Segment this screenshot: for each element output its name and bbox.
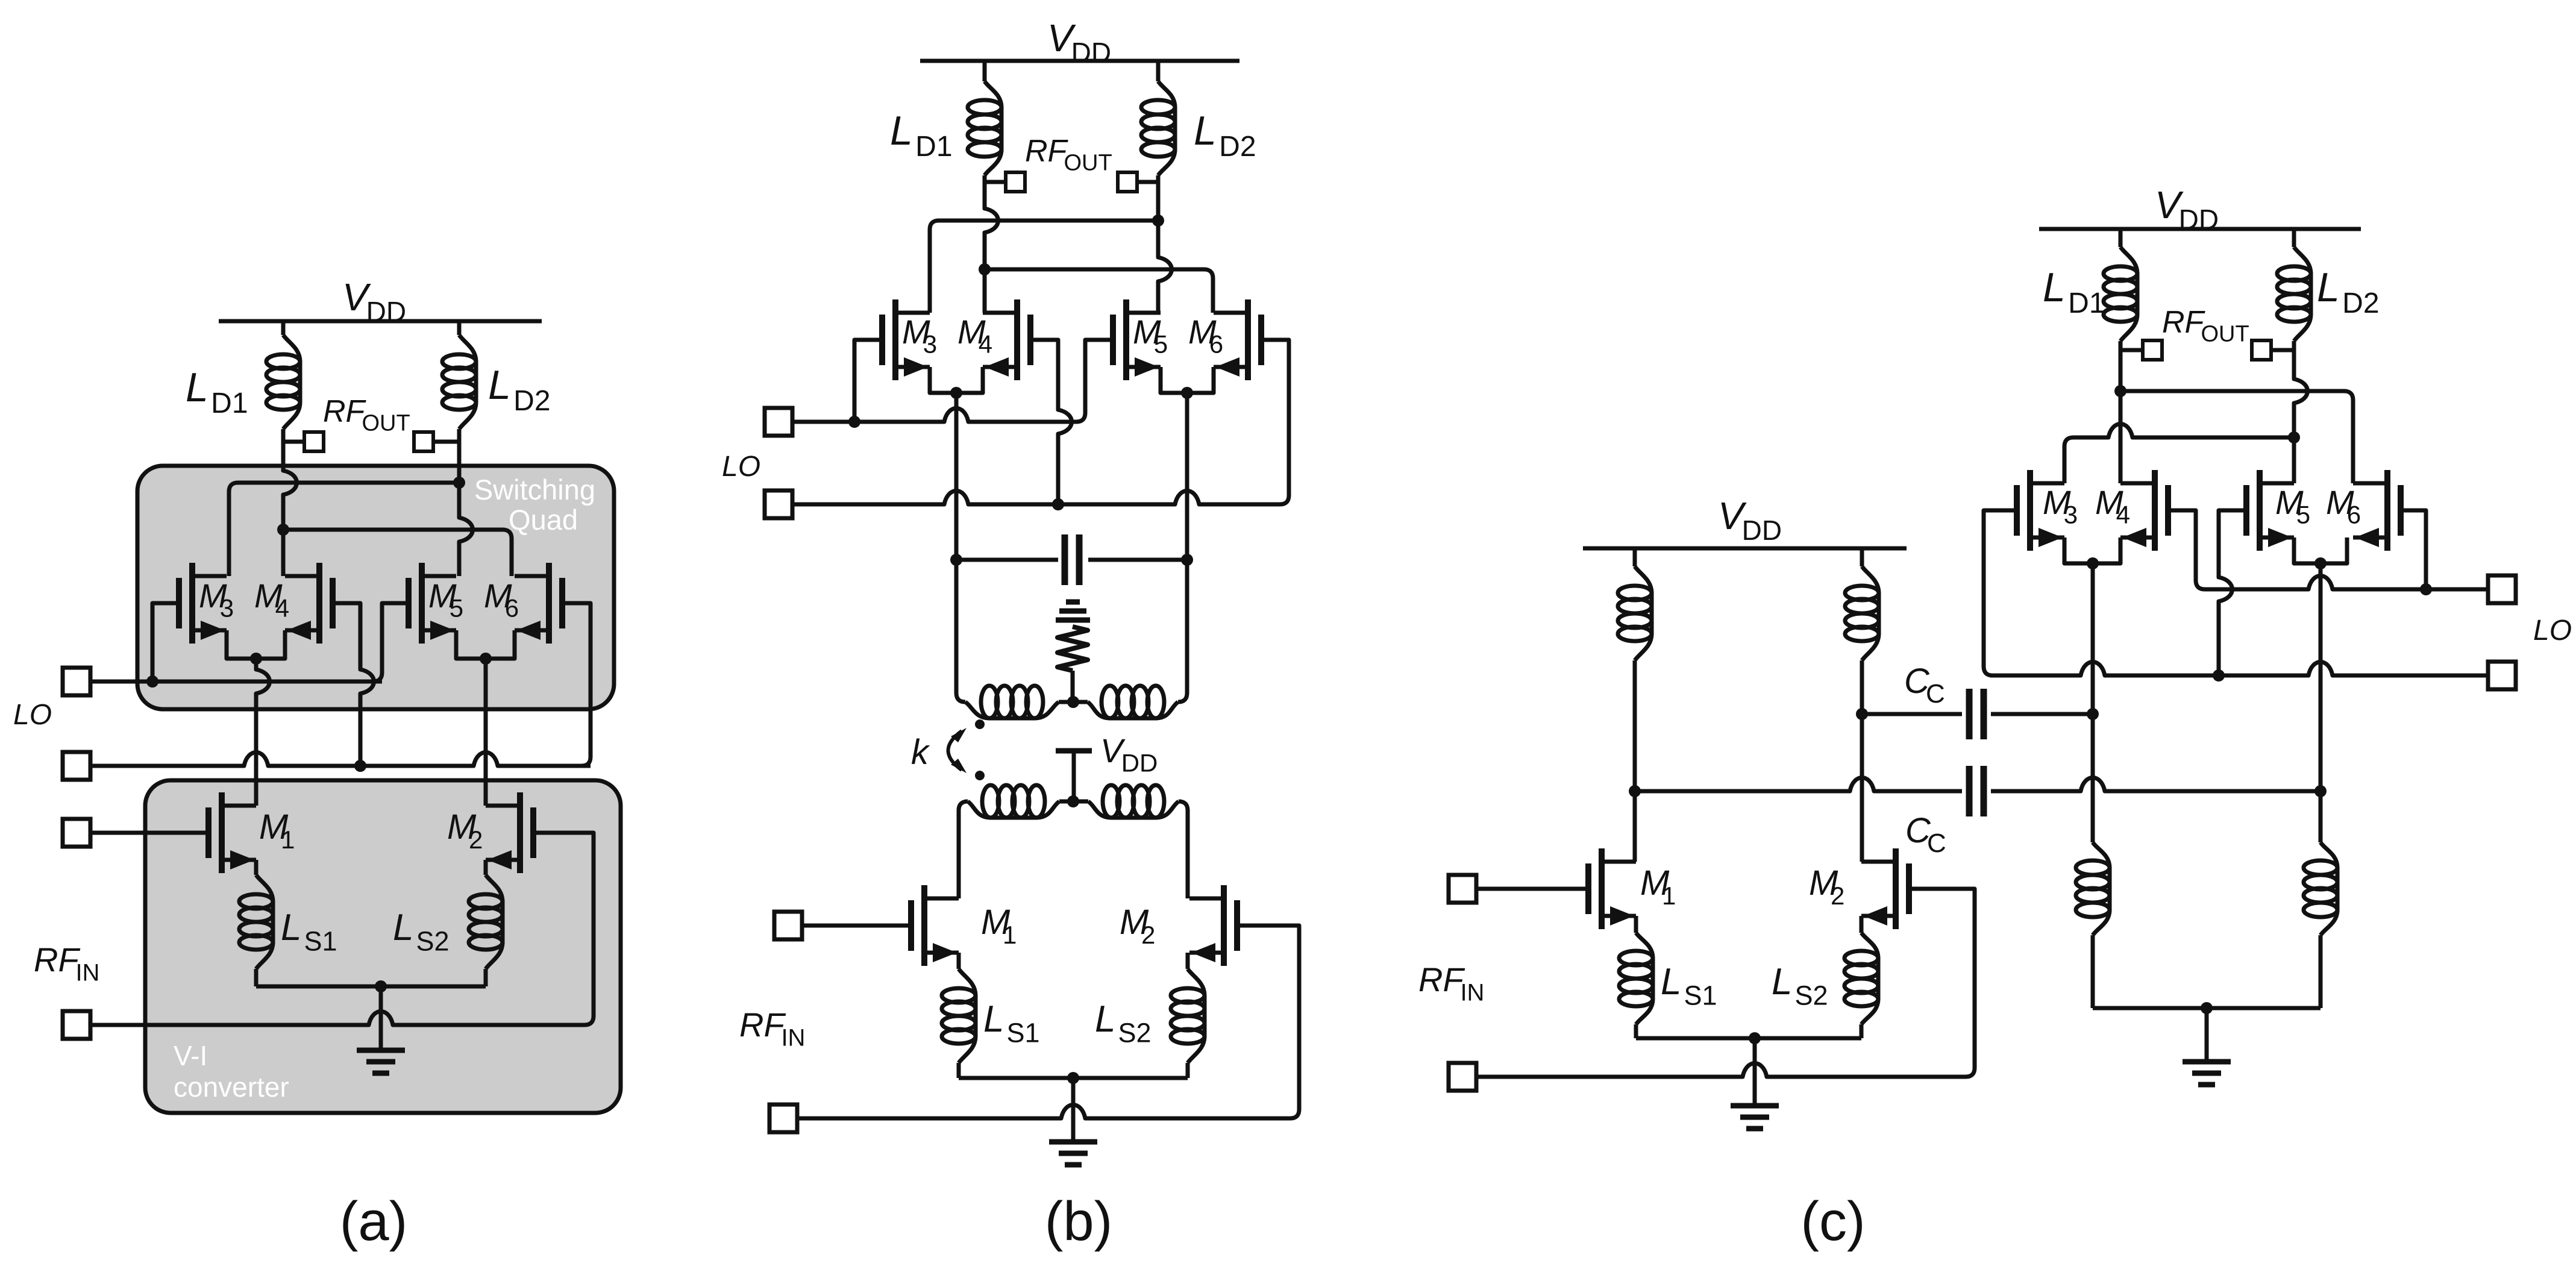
transistor M6 (b) bbox=[1258, 315, 1264, 365]
node M6 gate junction (c) bbox=[2420, 583, 2432, 595]
svg-text:IN: IN bbox=[1460, 980, 1484, 1006]
wire VDD tee stem (b) bbox=[1072, 751, 1076, 801]
svg-text:5: 5 bbox=[450, 594, 463, 622]
transistor M1 (a) bbox=[205, 807, 212, 858]
node source center (b) bbox=[1067, 1072, 1079, 1084]
svg-text:L: L bbox=[1095, 998, 1115, 1040]
inductor drain left (c) bbox=[1635, 566, 1652, 660]
wire RF_IN- line (c) bbox=[1476, 1064, 1975, 1077]
transistor M1 (b) bbox=[908, 900, 914, 951]
svg-text:OUT: OUT bbox=[1064, 151, 1112, 176]
wire M1 source to L_S1 bbox=[254, 860, 259, 875]
transistor M5 (a) bbox=[406, 578, 412, 628]
svg-text:D2: D2 bbox=[1219, 131, 1256, 163]
svg-text:DD: DD bbox=[366, 296, 406, 327]
node common source right (c) bbox=[2314, 557, 2327, 569]
port RF_IN+ (b) bbox=[774, 912, 802, 939]
wire source bottom rail (a) bbox=[256, 985, 486, 989]
wire L_D2 column (b) bbox=[1158, 175, 1172, 313]
svg-text:4: 4 bbox=[2116, 501, 2130, 529]
node L_D1/M4 drain (b) bbox=[979, 263, 991, 275]
wire M3-M4 common source (c) bbox=[2064, 537, 2120, 563]
node M4 gate junction bbox=[354, 760, 366, 772]
coupling arrow bbox=[948, 731, 962, 770]
wire C_C upper line (c) bbox=[1862, 712, 2093, 716]
V-I converter box bbox=[145, 780, 621, 1113]
wire M3 gate (c) bbox=[1984, 510, 2017, 675]
wire C_C lower line (c) bbox=[1635, 778, 2321, 792]
transistor M2 (a) bbox=[530, 807, 536, 858]
wire M1 source to L_S1 (c) bbox=[1634, 916, 1638, 933]
node M4 gate junction (b) bbox=[1052, 498, 1064, 510]
RF_OUT tap square left (a) bbox=[304, 432, 324, 451]
RF_OUT tap stub left (b) bbox=[985, 180, 1006, 184]
wire resistor to tap (b) bbox=[1071, 671, 1075, 702]
svg-text:C: C bbox=[1927, 829, 1946, 858]
wire L_D2 top (c) bbox=[2292, 229, 2296, 247]
port RF_IN- (c) bbox=[1449, 1063, 1476, 1091]
wire right source column (b) bbox=[1185, 393, 1189, 560]
port LO- (c) bbox=[2488, 662, 2516, 689]
svg-text:D2: D2 bbox=[513, 385, 550, 417]
wire M1 gate bbox=[90, 831, 208, 835]
transistor M3 (b) bbox=[879, 315, 885, 365]
svg-text:6: 6 bbox=[2347, 501, 2361, 529]
wire ground stem (c-right) bbox=[2205, 1008, 2209, 1062]
wire tail cap line (b) bbox=[956, 558, 1187, 562]
wire L_D2 to quad bbox=[459, 429, 473, 576]
wire LO+ line (b) bbox=[792, 409, 1076, 422]
inductor L_S1 (b) bbox=[959, 969, 976, 1063]
capacitor small plates above resistor bbox=[1066, 600, 1080, 605]
wire ground stem (b) bbox=[1071, 1078, 1076, 1142]
svg-text:5: 5 bbox=[1154, 330, 1168, 359]
transistor M3 (c) bbox=[2014, 485, 2020, 536]
transistor M1 (c) bbox=[1585, 863, 1591, 914]
RF_OUT tap left (b) bbox=[1006, 172, 1025, 192]
svg-text:DD: DD bbox=[1742, 515, 1782, 546]
svg-text:LO: LO bbox=[722, 451, 760, 483]
wire L1 top (c) bbox=[1633, 548, 1637, 566]
node primary center tap bbox=[1067, 696, 1079, 708]
capacitor tail plate right bbox=[1076, 534, 1083, 585]
inductor tail right (c) bbox=[2321, 842, 2337, 935]
node M4 drain junction bbox=[277, 524, 289, 536]
wire M6 gate (c) bbox=[2401, 510, 2426, 589]
ground (b) bbox=[1049, 1139, 1097, 1145]
node C_C upper right junction (c) bbox=[2087, 708, 2099, 720]
node common source left (a) bbox=[250, 653, 262, 665]
node L_D2/M3 drain (b) bbox=[1152, 215, 1164, 227]
coupling dot top bbox=[975, 719, 985, 729]
wire tail left bottom (c) bbox=[2091, 935, 2095, 1008]
wire LO- line (c) bbox=[1993, 662, 2488, 676]
port RF_IN+ (a) bbox=[63, 819, 90, 847]
transformer primary right half bbox=[1088, 702, 1178, 718]
wire M1 source to L_S1 (b) bbox=[957, 953, 961, 969]
svg-text:L: L bbox=[2317, 265, 2340, 310]
wire M2 gate (c) bbox=[1909, 889, 1975, 1068]
RF_OUT tap stub left (c) bbox=[2120, 348, 2143, 352]
svg-text:DD: DD bbox=[1071, 37, 1111, 68]
wire M5-M6 common source (b) bbox=[1161, 367, 1214, 393]
wire M2 source to L_S2 (c) bbox=[1860, 916, 1864, 933]
wire M5 gate (b) bbox=[1076, 340, 1113, 422]
inductor L_S2 (a) bbox=[486, 875, 503, 969]
wire common source to M1 drain bbox=[256, 659, 270, 806]
RF_OUT tap stub right (c) bbox=[2271, 348, 2294, 352]
svg-text:V-I: V-I bbox=[174, 1040, 207, 1071]
port RF_IN+ (c) bbox=[1449, 875, 1476, 903]
wire L_D2 column (c) bbox=[2294, 341, 2308, 483]
svg-text:L: L bbox=[890, 108, 913, 154]
wire ground stem (c-left) bbox=[1753, 1038, 1757, 1106]
svg-text:D2: D2 bbox=[2342, 287, 2379, 319]
wire M5 gate bbox=[373, 603, 409, 681]
transistor M3 (a) bbox=[176, 578, 182, 628]
node M3 gate junction bbox=[146, 675, 158, 688]
wire LO- line (a) bbox=[90, 753, 591, 766]
svg-text:4: 4 bbox=[979, 330, 992, 359]
inductor L_S1 (a) bbox=[256, 875, 273, 969]
node left drain / C_C (c) bbox=[1629, 785, 1641, 797]
svg-text:RF: RF bbox=[34, 941, 80, 979]
svg-text:C: C bbox=[1926, 679, 1945, 709]
port LO- (b) bbox=[765, 490, 792, 518]
svg-text:RF: RF bbox=[739, 1006, 786, 1044]
svg-text:S2: S2 bbox=[1118, 1017, 1151, 1048]
svg-text:LO: LO bbox=[2533, 615, 2572, 647]
wire L_D1 top bbox=[281, 321, 286, 335]
svg-text:5: 5 bbox=[2296, 501, 2310, 529]
ground (c-right) bbox=[2183, 1059, 2231, 1065]
RF_OUT tap square right (a) bbox=[414, 432, 433, 451]
wire LO+ line (a) bbox=[90, 680, 382, 684]
wire tail right bottom (c) bbox=[2319, 935, 2323, 1008]
wire L_D1 column (b) bbox=[985, 175, 998, 313]
RF_OUT tap right (c) bbox=[2252, 340, 2271, 360]
inductor drain right (c) bbox=[1862, 566, 1879, 660]
inductor L_S2 (c) bbox=[1861, 933, 1878, 1024]
wire L_S2 bottom (c) bbox=[1860, 1024, 1864, 1038]
node M5 gate junction (c) bbox=[2213, 669, 2225, 681]
transistor M4 (a) bbox=[330, 578, 336, 628]
wire M3-M4 common source bbox=[227, 630, 285, 659]
wire M4 gate (b) bbox=[1030, 340, 1072, 504]
inductor L_D2 bbox=[459, 335, 476, 429]
node tail right (b) bbox=[1181, 554, 1193, 566]
transformer secondary right half bbox=[1088, 801, 1179, 818]
transistor M6 (a) bbox=[559, 578, 565, 628]
svg-text:OUT: OUT bbox=[362, 411, 410, 436]
wire common source to M2 drain bbox=[484, 659, 488, 806]
svg-text:S1: S1 bbox=[1684, 980, 1717, 1010]
svg-text:L: L bbox=[1194, 108, 1217, 154]
svg-text:S1: S1 bbox=[1006, 1017, 1039, 1048]
wire M2 gate (b) bbox=[1237, 926, 1299, 1109]
inductor L_D2 (b) bbox=[1158, 81, 1175, 175]
wire left drain column (c) bbox=[1633, 660, 1637, 862]
node M3 drain junction bbox=[453, 477, 465, 489]
port LO+ (b) bbox=[765, 408, 792, 436]
svg-text:1: 1 bbox=[1662, 882, 1676, 910]
transistor M5 (c) bbox=[2243, 485, 2249, 536]
wire L_D1 top (b) bbox=[983, 61, 987, 81]
svg-text:1: 1 bbox=[1003, 921, 1017, 949]
svg-text:LO: LO bbox=[13, 699, 52, 731]
transistor M5 (b) bbox=[1110, 315, 1116, 365]
svg-text:6: 6 bbox=[505, 594, 519, 622]
resistor R tail (b) bbox=[1058, 627, 1088, 671]
svg-text:RF: RF bbox=[1418, 960, 1465, 998]
svg-text:S2: S2 bbox=[1794, 980, 1828, 1010]
RF_OUT tap stub right (b) bbox=[1137, 180, 1158, 184]
wire M3-M4 common source (b) bbox=[930, 367, 983, 393]
wire M5-M6 common source bbox=[456, 630, 515, 659]
node L_D2 junction (c) bbox=[2288, 431, 2300, 443]
svg-text:S2: S2 bbox=[416, 926, 449, 956]
svg-text:D1: D1 bbox=[211, 387, 248, 419]
svg-text:L: L bbox=[2043, 265, 2066, 310]
svg-text:(b): (b) bbox=[1045, 1191, 1112, 1252]
svg-text:2: 2 bbox=[469, 826, 483, 854]
transistor M4 (c) bbox=[2165, 485, 2171, 536]
port RF_IN- (b) bbox=[769, 1104, 797, 1132]
wire L_S1 bottom (b) bbox=[957, 1063, 961, 1078]
wire left column to winding (b) bbox=[956, 560, 965, 702]
port LO- (a) bbox=[63, 752, 90, 780]
ground (a) bbox=[357, 1048, 405, 1053]
svg-text:D1: D1 bbox=[2068, 287, 2105, 319]
node M3 gate junction (b) bbox=[848, 416, 860, 428]
wire M6 gate bbox=[562, 603, 591, 766]
wire L_D1 column (c) bbox=[2119, 341, 2123, 483]
node right drain / C_C (c) bbox=[1856, 708, 1868, 720]
svg-text:6: 6 bbox=[1209, 330, 1223, 359]
inductor L_S2 (b) bbox=[1188, 969, 1205, 1063]
svg-text:IN: IN bbox=[781, 1025, 805, 1051]
wire M1 gate (c) bbox=[1476, 887, 1588, 891]
svg-text:DD: DD bbox=[2179, 204, 2219, 235]
svg-text:Quad: Quad bbox=[509, 504, 578, 536]
node L_D1 junction (c) bbox=[2114, 385, 2126, 397]
svg-text:3: 3 bbox=[2064, 501, 2078, 529]
wire LO+ line (c) bbox=[2205, 576, 2488, 590]
svg-text:L: L bbox=[1661, 961, 1681, 1003]
capacitor tail plate left bbox=[1062, 534, 1068, 585]
wire M4 gate (c) bbox=[2168, 510, 2205, 589]
svg-text:3: 3 bbox=[220, 594, 234, 622]
wire L2 top (c) bbox=[1860, 548, 1864, 566]
svg-text:4: 4 bbox=[275, 594, 289, 622]
coupling dot bottom bbox=[975, 771, 985, 780]
VDD rail (c-right) bbox=[2039, 227, 2361, 231]
wire secondary center link bbox=[1059, 800, 1088, 804]
svg-text:L: L bbox=[186, 365, 208, 410]
wire M5 gate (c) bbox=[2219, 510, 2246, 675]
ground (c-left) bbox=[1731, 1103, 1779, 1109]
wire L_D2 top bbox=[457, 321, 462, 335]
inductor L_D1 bbox=[283, 335, 300, 429]
wire L_D1 top (c) bbox=[2119, 229, 2123, 247]
transformer primary left half bbox=[965, 702, 1059, 718]
svg-text:IN: IN bbox=[75, 960, 99, 986]
wire cross-couple upper (a) bbox=[229, 483, 459, 576]
RF_OUT tap right (b) bbox=[1118, 172, 1137, 192]
RF_OUT tap left (c) bbox=[2143, 340, 2162, 360]
wire cross-couple upper (c) bbox=[2120, 391, 2353, 483]
wire RF_IN- line (b) bbox=[797, 1105, 1299, 1119]
svg-text:2: 2 bbox=[1141, 921, 1155, 949]
wire M6 gate (b) bbox=[1261, 340, 1289, 504]
svg-text:L: L bbox=[1772, 961, 1792, 1003]
wire M1 gate (b) bbox=[802, 924, 911, 928]
wire M4 gate bbox=[333, 603, 374, 766]
svg-text:L: L bbox=[393, 907, 413, 948]
transistor M6 (c) bbox=[2398, 485, 2404, 536]
svg-text:2: 2 bbox=[1831, 882, 1844, 910]
wire left source column (c) bbox=[2091, 563, 2095, 842]
VDD rail (c-left) bbox=[1583, 547, 1907, 551]
svg-text:RF: RF bbox=[323, 394, 367, 429]
wire source bottom rail (b) bbox=[959, 1076, 1188, 1080]
node common source left (b) bbox=[950, 387, 962, 399]
svg-text:k: k bbox=[911, 733, 930, 772]
wire right source column (c) bbox=[2319, 563, 2323, 842]
svg-text:(c): (c) bbox=[1800, 1191, 1865, 1252]
svg-text:RF: RF bbox=[2162, 305, 2206, 340]
wire L_S2 bottom bbox=[484, 969, 488, 986]
node source center (a) bbox=[375, 980, 387, 992]
svg-text:L: L bbox=[983, 998, 1004, 1040]
inductor L_D1 (c) bbox=[2120, 247, 2137, 341]
port LO+ (a) bbox=[63, 668, 90, 695]
svg-text:3: 3 bbox=[923, 330, 937, 359]
node LO- M4 junction (b) bbox=[1052, 498, 1064, 510]
wire M3 gate (b) bbox=[854, 340, 882, 422]
wire M2 source to L_S2 bbox=[484, 860, 488, 875]
svg-text:Switching: Switching bbox=[474, 474, 595, 506]
wire secondary left end (b) bbox=[959, 801, 968, 898]
inductor L_D1 (b) bbox=[985, 81, 1001, 175]
VDD rail (a) bbox=[219, 319, 542, 324]
wire RF_IN- line bbox=[90, 1012, 594, 1026]
svg-text:DD: DD bbox=[1121, 749, 1158, 777]
wire L_D2 top (b) bbox=[1156, 61, 1161, 81]
wire L_D1 to quad bbox=[283, 429, 297, 576]
wire left source column (b) bbox=[954, 393, 959, 560]
node common source left (c) bbox=[2087, 557, 2099, 569]
svg-text:RF: RF bbox=[1025, 134, 1069, 169]
RF_OUT tap stub left (a) bbox=[283, 440, 304, 444]
svg-text:OUT: OUT bbox=[2201, 322, 2249, 347]
wire cross-couple lower (b) bbox=[985, 269, 1213, 313]
wire M2 gate bbox=[533, 833, 594, 1016]
wire L_S2 bottom (b) bbox=[1186, 1063, 1190, 1078]
svg-text:(a): (a) bbox=[340, 1191, 407, 1252]
svg-text:1: 1 bbox=[281, 826, 295, 854]
port LO+ (c) bbox=[2488, 575, 2516, 603]
transformer secondary left half bbox=[968, 801, 1059, 818]
wire cross-couple lower (a) bbox=[283, 530, 512, 576]
wire L_S1 bottom bbox=[254, 969, 259, 986]
wire primary center link bbox=[1059, 700, 1088, 704]
inductor L_D2 (c) bbox=[2294, 247, 2311, 341]
svg-text:converter: converter bbox=[174, 1071, 289, 1103]
wire M5-M6 common source (c) bbox=[2294, 537, 2347, 563]
svg-text:S1: S1 bbox=[304, 926, 337, 956]
wire cross-couple lower (c) bbox=[2064, 424, 2294, 484]
wire M2 source to L_S2 (b) bbox=[1186, 953, 1190, 969]
node C_C lower right junction (c) bbox=[2314, 785, 2327, 797]
node source center (c) bbox=[1749, 1032, 1761, 1044]
wire right column to winding (b) bbox=[1178, 560, 1187, 702]
VDD tee bar (b) bbox=[1056, 748, 1092, 754]
switching quad box bbox=[137, 466, 614, 709]
wire ground stem (a) bbox=[379, 986, 383, 1050]
transistor M2 (c) bbox=[1906, 863, 1912, 914]
wire LO- line (b) bbox=[792, 491, 1280, 505]
node common source right (a) bbox=[480, 653, 492, 665]
wire cross-couple upper (b) bbox=[930, 221, 1158, 313]
svg-text:L: L bbox=[488, 362, 511, 408]
RF_OUT tap stub right (a) bbox=[433, 440, 459, 444]
port RF_IN- (a) bbox=[63, 1011, 90, 1039]
wire M3 gate bbox=[152, 603, 179, 681]
node tail center (c) bbox=[2201, 1002, 2213, 1014]
wire right drain column (c) bbox=[1860, 660, 1864, 862]
node tail left (b) bbox=[950, 554, 962, 566]
wire L_S1 bottom (c) bbox=[1634, 1024, 1638, 1038]
inductor tail left (c) bbox=[2093, 842, 2110, 935]
node secondary center tap bbox=[1067, 795, 1079, 807]
VDD rail (b) bbox=[920, 59, 1239, 63]
transistor M4 (b) bbox=[1027, 315, 1033, 365]
wire secondary right end (b) bbox=[1179, 801, 1188, 898]
wire tail bottom rail (c) bbox=[2093, 1006, 2321, 1010]
node common source right (b) bbox=[1181, 387, 1193, 399]
capacitor C_C lower plates bbox=[1966, 766, 1973, 816]
svg-text:L: L bbox=[281, 907, 301, 948]
svg-text:D1: D1 bbox=[915, 131, 952, 163]
transistor M2 (b) bbox=[1234, 900, 1240, 951]
inductor L_S1 (c) bbox=[1636, 933, 1653, 1024]
wire source bottom rail (c) bbox=[1636, 1036, 1861, 1041]
capacitor C_C upper plates bbox=[1966, 689, 1973, 739]
